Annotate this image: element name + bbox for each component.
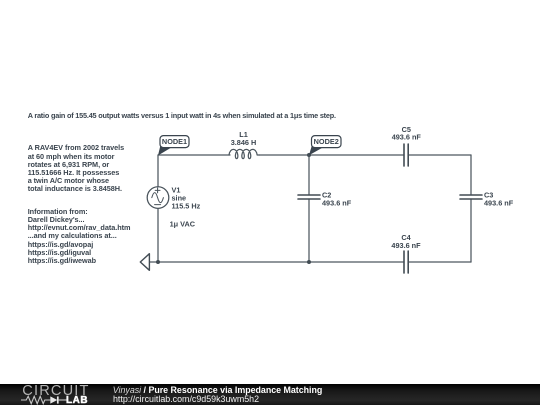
svg-text:NODE1: NODE1: [162, 137, 187, 146]
svg-text:493.6 nF: 493.6 nF: [322, 199, 352, 208]
svg-text:493.6 nF: 493.6 nF: [392, 133, 422, 142]
svg-text:493.6 nF: 493.6 nF: [484, 199, 514, 208]
svg-text:NODE2: NODE2: [314, 137, 339, 146]
svg-text:3.846 H: 3.846 H: [231, 138, 257, 147]
svg-text:493.6 nF: 493.6 nF: [391, 241, 421, 250]
svg-text:115.5 Hz: 115.5 Hz: [172, 202, 201, 211]
svg-text:1μ VAC: 1μ VAC: [170, 219, 196, 228]
